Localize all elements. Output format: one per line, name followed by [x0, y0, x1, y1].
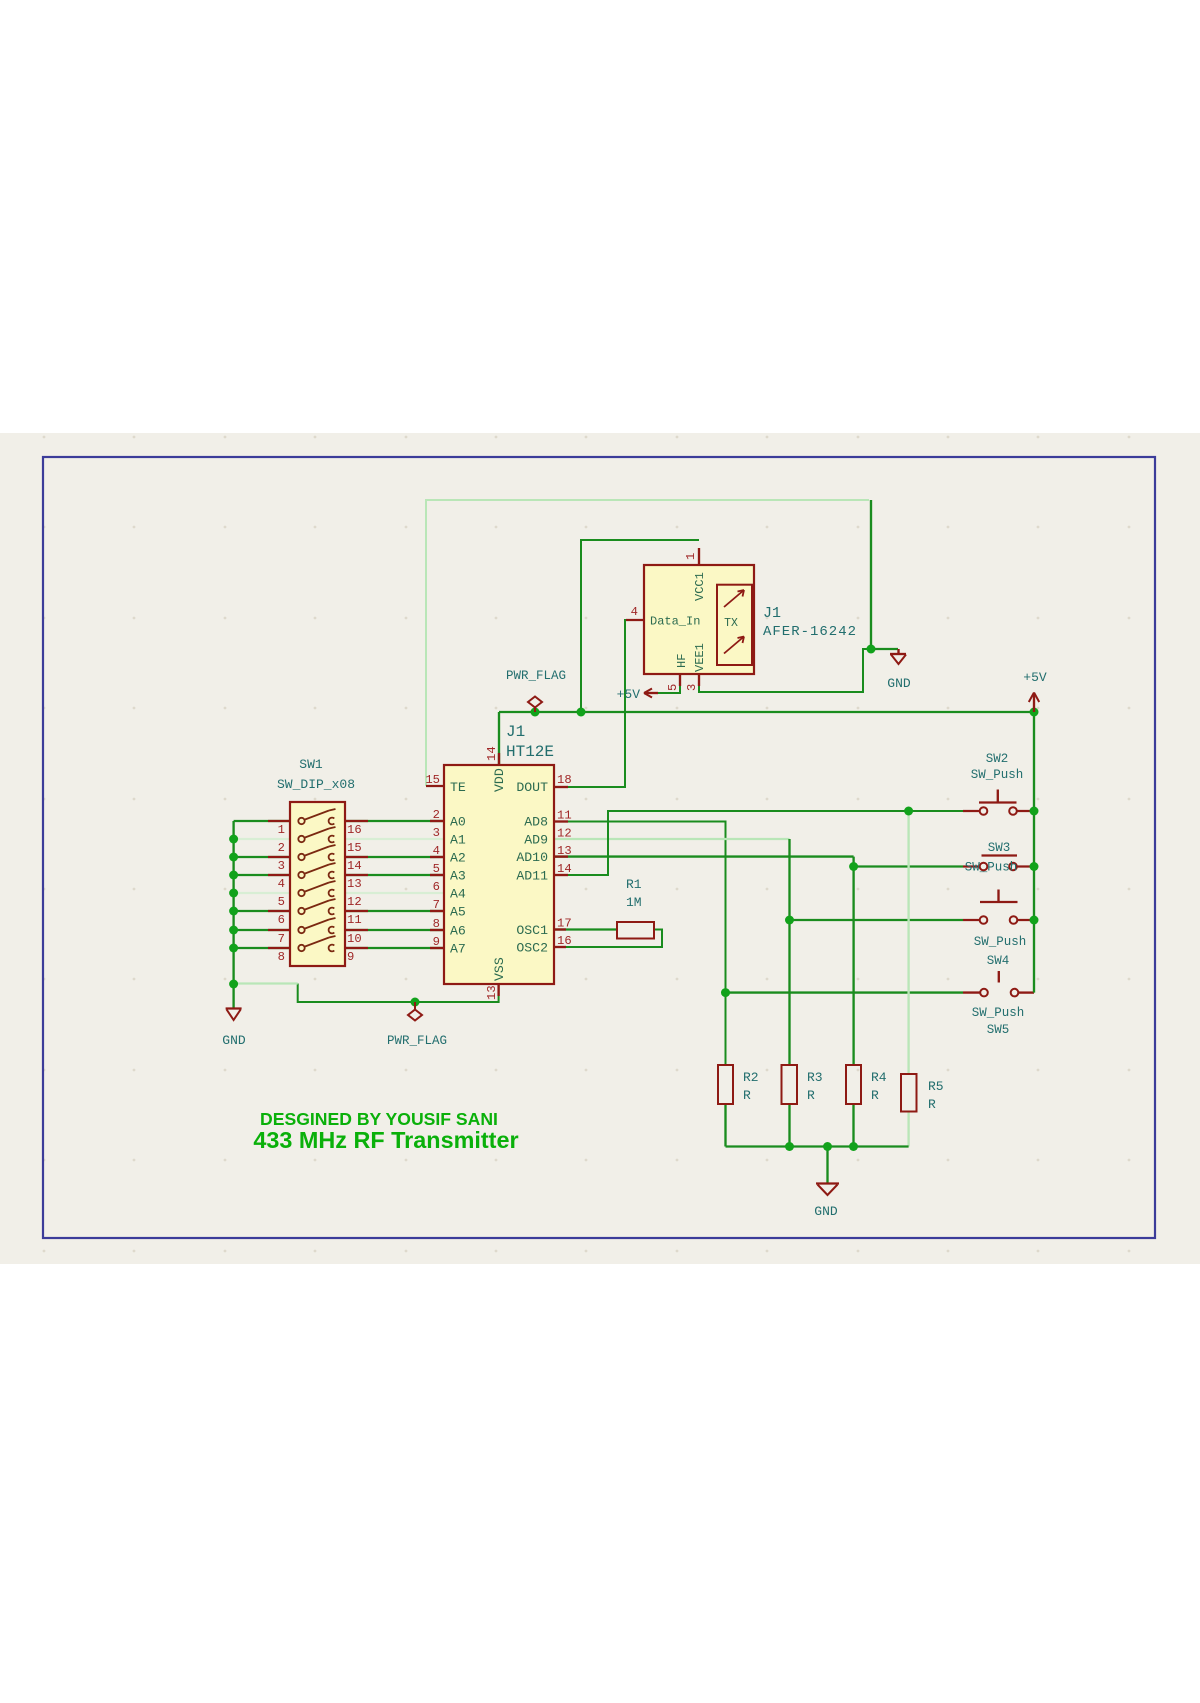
- svg-text:SW1: SW1: [299, 757, 323, 772]
- svg-text:R: R: [871, 1088, 879, 1103]
- svg-text:A6: A6: [450, 924, 466, 939]
- junction dot SW2 +5V bus: [1030, 807, 1039, 816]
- svg-text:+5V: +5V: [617, 687, 641, 702]
- pin stub HT12E VDD: [498, 753, 500, 765]
- junction dot PWR_FLAG top: [531, 708, 540, 717]
- svg-text:SW5: SW5: [987, 1023, 1010, 1037]
- junction dot J1 VCC wire on +5V bus: [577, 708, 586, 717]
- svg-text:4: 4: [278, 877, 285, 891]
- switch SW5 SW_Push: [980, 971, 1018, 996]
- svg-text:HF: HF: [675, 654, 689, 668]
- wire J1 VCC1 to +5V bus: [581, 540, 699, 712]
- svg-text:R: R: [743, 1088, 751, 1103]
- resistor R1 body: [617, 922, 654, 939]
- wire SW2 stub right to +5V bus: [1017, 810, 1035, 812]
- wire AD9 net pale horizontal: [554, 838, 790, 840]
- wire AD10 net vertical to SW3 and R4: [852, 857, 854, 1065]
- svg-text:GND: GND: [887, 676, 911, 691]
- wire R4 bottom lead: [852, 1104, 854, 1147]
- switch SW2 SW_Push: [979, 790, 1017, 815]
- wire R1 to OSC2: [554, 930, 662, 948]
- resistor R5 body: [901, 1074, 917, 1112]
- svg-text:R: R: [807, 1088, 815, 1103]
- wire SW5 stub right to +5V bus: [1018, 991, 1034, 993]
- wire TE net pale loop (TE to GND via top): [426, 500, 869, 786]
- svg-text:14: 14: [347, 859, 362, 873]
- svg-text:11: 11: [347, 913, 362, 927]
- junction dot SW2 row R5: [904, 807, 913, 816]
- svg-text:2: 2: [433, 808, 440, 822]
- svg-text:SW_Push: SW_Push: [965, 861, 1018, 875]
- pin stub J1 HF: [679, 674, 681, 686]
- svg-text:15: 15: [347, 841, 362, 855]
- svg-text:R3: R3: [807, 1070, 823, 1085]
- pin numbers SW1 right: [347, 823, 362, 964]
- svg-text:SW_Push: SW_Push: [974, 935, 1027, 949]
- wire SW3 stub left: [963, 865, 980, 867]
- wire A0 row: [345, 820, 444, 822]
- svg-text:3: 3: [685, 684, 699, 691]
- junction dot SW4 row: [785, 916, 794, 925]
- svg-text:433 MHz RF Transmitter: 433 MHz RF Transmitter: [253, 1127, 518, 1153]
- svg-text:R1: R1: [626, 877, 642, 892]
- svg-text:VSS: VSS: [492, 957, 507, 981]
- svg-text:A0: A0: [450, 815, 466, 830]
- svg-text:13: 13: [485, 985, 499, 1000]
- wire SW1 row5 pale: [234, 892, 290, 894]
- svg-text:13: 13: [557, 844, 572, 858]
- wire ground stem bottom: [826, 1147, 828, 1184]
- wire SW5 row: [726, 991, 964, 993]
- wire +5V vertical bus: [1033, 712, 1035, 993]
- wire SW1 row1: [234, 820, 290, 822]
- junction dot SW3 row: [849, 862, 858, 871]
- svg-text:R2: R2: [743, 1070, 759, 1085]
- svg-text:OSC2: OSC2: [516, 941, 548, 956]
- svg-text:11: 11: [557, 809, 572, 823]
- svg-text:OSC1: OSC1: [516, 923, 548, 938]
- svg-text:AD9: AD9: [524, 833, 548, 848]
- wire J1 VEE to GND: [699, 649, 871, 692]
- pin stub HT12E OSC1 OSC2: [554, 928, 566, 930]
- svg-text:5: 5: [666, 684, 680, 691]
- svg-text:TX: TX: [724, 617, 738, 630]
- svg-text:A4: A4: [450, 887, 466, 902]
- ground symbol GND top right: [890, 649, 906, 664]
- svg-text:3: 3: [433, 826, 440, 840]
- wire +5V bus horizontal: [499, 711, 1034, 713]
- svg-text:VDD: VDD: [492, 768, 507, 792]
- svg-text:AFER-16242: AFER-16242: [763, 624, 857, 640]
- svg-text:9: 9: [433, 935, 440, 949]
- svg-text:GND: GND: [222, 1033, 246, 1048]
- svg-text:HT12E: HT12E: [506, 743, 554, 761]
- pin stubs SW1 right and HT12E left: [345, 820, 368, 822]
- wire SW2 stub left: [963, 810, 980, 812]
- wire A7 row: [345, 947, 444, 949]
- svg-text:7: 7: [278, 932, 285, 946]
- svg-text:16: 16: [557, 934, 572, 948]
- svg-text:A7: A7: [450, 942, 466, 957]
- wire AD8 net: HT12E AD8 down to SW5 row: [554, 822, 726, 1066]
- wire SW1 row8: [234, 947, 290, 949]
- wire GND junction to GND symbol: [871, 648, 898, 650]
- wire A6 row: [345, 929, 444, 931]
- svg-text:TE: TE: [450, 780, 466, 795]
- junction dot PWR_FLAG bottom: [411, 998, 420, 1007]
- svg-text:4: 4: [433, 844, 440, 858]
- wire TE stub: [426, 785, 444, 787]
- wire SW1 row6: [234, 910, 290, 912]
- pin numbers SW1 left: [278, 823, 285, 964]
- svg-text:SW_DIP_x08: SW_DIP_x08: [277, 777, 355, 792]
- svg-text:14: 14: [485, 746, 499, 761]
- svg-text:AD11: AD11: [516, 869, 548, 884]
- svg-text:GND: GND: [814, 1204, 838, 1219]
- svg-text:SW4: SW4: [987, 954, 1010, 968]
- svg-text:A5: A5: [450, 905, 466, 920]
- power symbol +5V left arrow: [644, 689, 658, 698]
- svg-text:A2: A2: [450, 851, 466, 866]
- svg-text:1: 1: [684, 553, 698, 560]
- wire VSS link to GND bus pale: [234, 982, 298, 984]
- svg-text:3: 3: [278, 859, 285, 873]
- svg-text:PWR_FLAG: PWR_FLAG: [506, 669, 566, 683]
- resistor R3 body: [782, 1065, 798, 1104]
- svg-text:SW3: SW3: [988, 841, 1011, 855]
- junction dots resistor ground bus: [785, 1142, 794, 1151]
- pin stub J1 VEE: [698, 674, 700, 686]
- svg-text:1M: 1M: [626, 895, 642, 910]
- svg-text:14: 14: [557, 862, 572, 876]
- pin numbers HT12E left: [425, 773, 440, 949]
- svg-text:8: 8: [278, 950, 285, 964]
- svg-text:9: 9: [347, 950, 354, 964]
- svg-text:10: 10: [347, 932, 362, 946]
- svg-text:17: 17: [557, 917, 572, 931]
- resistor R2 body: [718, 1065, 733, 1104]
- wire A4 row pale: [345, 892, 444, 894]
- pin stubs SW1 left: [268, 820, 290, 822]
- module J1 TX arrows: [724, 590, 744, 607]
- pin numbers HT12E right: [557, 773, 572, 948]
- power flag PWR_FLAG bottom: [408, 1002, 422, 1021]
- svg-text:AD10: AD10: [516, 850, 548, 865]
- svg-text:+5V: +5V: [1023, 670, 1047, 685]
- svg-text:16: 16: [347, 823, 362, 837]
- svg-text:VEE1: VEE1: [693, 643, 707, 672]
- svg-text:7: 7: [433, 898, 440, 912]
- switch SW4 SW_Push: [980, 890, 1018, 924]
- wire A2 row: [345, 856, 444, 858]
- pin stub HT12E VSS: [497, 984, 499, 996]
- pin stubs HT12E right: [554, 786, 568, 788]
- junction dot +5V corner: [1030, 708, 1039, 717]
- svg-text:VCC1: VCC1: [693, 572, 707, 601]
- svg-text:DOUT: DOUT: [516, 780, 548, 795]
- sheet border frame: [43, 457, 1155, 1238]
- svg-text:4: 4: [631, 605, 638, 619]
- wire R3 bottom lead: [788, 1104, 790, 1147]
- wire SW1 row7: [234, 929, 290, 931]
- junction dot GND near J1: [867, 645, 876, 654]
- svg-text:R5: R5: [928, 1079, 944, 1094]
- wire SW1 row3: [234, 856, 290, 858]
- svg-text:J1: J1: [763, 605, 781, 622]
- wire A1 row pale: [345, 838, 444, 840]
- wire AD10 net horizontal: [554, 855, 854, 857]
- svg-text:SW_Push: SW_Push: [971, 768, 1024, 782]
- svg-text:12: 12: [347, 895, 362, 909]
- wire A5 row: [345, 910, 444, 912]
- svg-text:SW_Push: SW_Push: [972, 1006, 1025, 1020]
- wire SW3 stub right to +5V bus: [1017, 865, 1034, 867]
- svg-text:A3: A3: [450, 869, 466, 884]
- wire SW4 stub right to +5V bus: [1017, 919, 1034, 921]
- junction dot SW5 row: [721, 988, 730, 997]
- pin names HT12E left: [450, 780, 466, 957]
- svg-text:1: 1: [278, 823, 285, 837]
- svg-text:12: 12: [557, 827, 572, 841]
- svg-text:5: 5: [433, 862, 440, 876]
- svg-text:6: 6: [278, 913, 285, 927]
- module J1 antenna TX box: [717, 585, 752, 665]
- wire OSC1 to R1: [554, 928, 617, 930]
- junction dots SW1 common bus: [229, 835, 238, 844]
- switch SW1 poles: [298, 809, 335, 951]
- wire HT12E VSS to PWR_FLAG: [298, 984, 499, 1003]
- svg-text:DESGINED BY YOUSIF SANI: DESGINED BY YOUSIF SANI: [260, 1109, 498, 1129]
- wire +5V bus corner to HT12E VDD pin: [498, 712, 500, 765]
- pin names HT12E right: [516, 780, 548, 956]
- svg-text:2: 2: [278, 841, 285, 855]
- wire SW3 row: [854, 865, 963, 867]
- svg-text:13: 13: [347, 877, 362, 891]
- svg-text:R4: R4: [871, 1070, 887, 1085]
- wire A3 row: [345, 874, 444, 876]
- svg-text:R: R: [928, 1097, 936, 1112]
- switch SW3 SW_Push: [980, 856, 1017, 871]
- svg-text:8: 8: [433, 917, 440, 931]
- wire R5 pale vertical from SW2 row: [907, 811, 909, 1074]
- power flag PWR_FLAG top: [528, 697, 542, 713]
- wire R2 bottom lead: [724, 1104, 726, 1147]
- wire SW1 common bus vertical: [232, 821, 234, 1008]
- svg-text:A1: A1: [450, 833, 466, 848]
- svg-text:5: 5: [278, 895, 285, 909]
- svg-text:SW2: SW2: [986, 752, 1009, 766]
- module J1 AFER-16242 body: [644, 565, 754, 674]
- svg-text:15: 15: [425, 773, 440, 787]
- wire SW1 row2 pale: [234, 838, 290, 840]
- wire GND vertical from top loop: [870, 500, 872, 649]
- power symbol +5V right: [1029, 693, 1039, 713]
- wire SW1 row4: [234, 874, 290, 876]
- wire AD11 net to SW2 row: [554, 811, 963, 875]
- wire SW4 row: [790, 919, 964, 921]
- wire SW5 stub left: [963, 991, 980, 993]
- svg-text:6: 6: [433, 880, 440, 894]
- svg-text:AD8: AD8: [524, 815, 548, 830]
- wire J1 HF pin to +5V label: [658, 674, 680, 693]
- svg-text:Data_In: Data_In: [650, 615, 700, 629]
- pin stub J1 VCC1: [698, 548, 700, 565]
- ground symbol GND left: [226, 1009, 242, 1021]
- resistor R4 body: [846, 1065, 861, 1104]
- switch SW1 SW_DIP_x08 body: [290, 802, 345, 966]
- svg-text:J1: J1: [506, 723, 525, 741]
- wire resistor ground bus: [726, 1145, 909, 1147]
- svg-text:PWR_FLAG: PWR_FLAG: [387, 1034, 447, 1048]
- junction dot SW3 +5V bus: [1030, 862, 1039, 871]
- wire SW4 stub left: [963, 919, 980, 921]
- wire HT12E DOUT to J1 Data_In: [554, 620, 644, 787]
- IC J1 HT12E body: [444, 765, 554, 984]
- junction dot SW4 +5V bus: [1030, 916, 1039, 925]
- wire R5 bottom lead pale: [907, 1112, 909, 1147]
- ground symbol GND bottom: [816, 1184, 839, 1196]
- pin stub J1 Data_In: [626, 619, 644, 621]
- wire AD9 net vertical to SW4 and R3: [788, 839, 790, 1065]
- svg-text:18: 18: [557, 773, 572, 787]
